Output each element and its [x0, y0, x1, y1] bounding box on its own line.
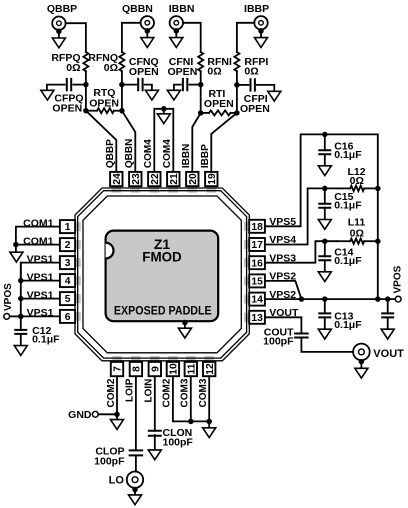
pin 23 box — [129, 172, 141, 186]
svg-text:13: 13 — [251, 313, 263, 324]
svg-text:5: 5 — [65, 294, 71, 305]
svg-text:COM3: COM3 — [198, 378, 209, 407]
svg-text:EXPOSED PADDLE: EXPOSED PADDLE — [114, 303, 212, 317]
capacitor C16 0.1uF — [324, 134, 326, 150]
node rail bottom — [375, 296, 381, 302]
pin 6 box — [60, 310, 75, 323]
svg-text:VPS3: VPS3 — [269, 252, 296, 264]
resistor RFNI 0Ω — [198, 52, 203, 71]
ground (exposed paddle) — [182, 320, 188, 326]
svg-text:VPS5: VPS5 — [269, 216, 296, 228]
wire COM1 pin 1 — [16, 227, 60, 245]
package outline middle — [78, 191, 247, 358]
pin 14 box — [249, 293, 265, 306]
capacitor CFNI OPEN — [190, 84, 201, 86]
pin 2 box — [60, 238, 75, 251]
wire IBBN to RFNI — [183, 23, 201, 52]
inductor L12 0Ω — [350, 186, 364, 191]
wire COM3 pin 12 — [208, 376, 210, 421]
capacitor C14 0.1uF — [324, 241, 326, 256]
ground (COM1) — [10, 252, 23, 262]
svg-text:9: 9 — [150, 366, 161, 372]
node RTI right — [234, 110, 240, 116]
inductor L11 0Ω — [350, 239, 364, 244]
node C15 junction — [322, 186, 328, 192]
node VPS2 join — [299, 296, 305, 302]
connector VOUT — [353, 344, 370, 361]
node CFNI junction — [198, 82, 204, 88]
svg-text:8: 8 — [132, 366, 143, 372]
svg-text:VPS1: VPS1 — [27, 289, 54, 301]
svg-text:QBBN: QBBN — [122, 3, 153, 15]
svg-text:VPS1: VPS1 — [27, 307, 54, 319]
svg-text:OPEN: OPEN — [52, 103, 82, 115]
svg-text:OPEN: OPEN — [129, 66, 159, 78]
connector IBBP — [254, 16, 267, 29]
wire to pin 23 — [122, 111, 135, 172]
wire LOIN pin 9 to CLON — [154, 376, 156, 431]
svg-text:LO: LO — [109, 475, 125, 487]
node COM1 junction — [13, 242, 19, 248]
package outline outer — [75, 188, 249, 361]
svg-text:15: 15 — [251, 277, 263, 288]
svg-text:0Ω: 0Ω — [350, 227, 364, 239]
pin 16 box — [249, 256, 265, 269]
svg-text:22: 22 — [150, 173, 161, 185]
wire VPS4 pin 17 to supply row 2 — [265, 188, 337, 244]
capacitor CLON 100pF — [148, 431, 162, 436]
resistor RTI OPEN — [201, 112, 209, 114]
svg-text:100pF: 100pF — [263, 335, 294, 347]
svg-text:GND: GND — [68, 409, 92, 421]
node RTQ left — [83, 108, 89, 114]
node CFNQ junction — [119, 82, 125, 88]
ground (QBBP connector) — [56, 29, 62, 35]
node VPS1 pin6 — [18, 314, 24, 320]
terminal VPOS right — [395, 296, 401, 302]
svg-text:0.1μF: 0.1μF — [334, 319, 362, 331]
connector QBBP — [52, 17, 65, 30]
wire VPS1 pin 4 — [21, 280, 60, 282]
capacitor C15 0.1uF — [324, 188, 326, 203]
node RTI left — [198, 110, 204, 116]
svg-text:12: 12 — [205, 363, 216, 375]
svg-text:OPEN: OPEN — [168, 66, 198, 78]
chip Z1 FMOD body — [106, 231, 219, 322]
wire COUT to VOUT connector — [301, 338, 353, 352]
wire IBBP to RFPI — [237, 23, 254, 52]
wire RFPI to RTI node — [236, 71, 238, 113]
package outline inner — [83, 196, 241, 353]
wire VPS1 pin 6 — [21, 315, 60, 317]
package pin pads — [112, 186, 121, 193]
pin 11 box — [185, 362, 197, 376]
node VPS1 pin5 — [18, 296, 24, 302]
wire VOUT pin 13 to COUT — [265, 317, 301, 333]
svg-text:0Ω: 0Ω — [207, 65, 221, 77]
svg-text:14: 14 — [251, 295, 263, 306]
terminal GND — [98, 413, 117, 415]
svg-text:24: 24 — [112, 173, 123, 185]
pin 9 box — [149, 362, 161, 376]
svg-text:IBBN: IBBN — [169, 3, 195, 15]
svg-text:VPOS: VPOS — [392, 265, 403, 293]
svg-text:0Ω: 0Ω — [244, 65, 258, 77]
svg-text:10: 10 — [169, 363, 180, 375]
capacitor COUT 100pF — [294, 334, 309, 338]
svg-text:0.1μF: 0.1μF — [334, 199, 362, 211]
pin 1 box — [60, 220, 75, 233]
connector LO — [127, 472, 143, 488]
capacitor CFPI OPEN — [237, 84, 249, 86]
node CFPQ junction — [83, 82, 89, 88]
svg-text:IBBP: IBBP — [244, 3, 269, 15]
svg-text:19: 19 — [207, 173, 218, 185]
svg-text:COM4: COM4 — [143, 139, 154, 168]
pin 3 box — [60, 256, 75, 269]
svg-text:7: 7 — [113, 366, 124, 372]
svg-text:VPS2: VPS2 — [269, 289, 296, 301]
connector IBBN — [170, 16, 183, 29]
wire COM3 pin 11 — [190, 376, 192, 421]
svg-text:20: 20 — [188, 173, 199, 185]
pin 7 box — [111, 362, 123, 376]
svg-text:FMOD: FMOD — [142, 249, 182, 265]
wire RFNQ to RTQ node — [121, 71, 123, 111]
svg-text:6: 6 — [65, 312, 71, 323]
wire VPS3 pin 16 to supply row 3 — [265, 241, 337, 263]
wire RFNI to RTI node — [200, 71, 202, 113]
pin 8 box — [130, 362, 142, 376]
terminal VPOS left — [10, 315, 21, 317]
rail wire right supply — [377, 134, 379, 299]
svg-text:COM3: COM3 — [180, 378, 191, 407]
wire COM1 pin 2 — [16, 244, 60, 246]
chip pin-1 notch — [106, 243, 114, 259]
resistor RFNQ 0Ω — [119, 52, 124, 71]
wire VPS1 pin 5 — [21, 298, 60, 300]
wire VPS1 pin 3 — [21, 263, 60, 281]
capacitor bypass at VPOS — [387, 299, 389, 313]
node C13 junction — [322, 296, 328, 302]
wire VPS1 bus — [20, 263, 22, 317]
resistor RFPI 0Ω — [234, 52, 239, 71]
ground (LO connector) — [132, 487, 138, 493]
capacitor CLOP 100pF — [129, 450, 144, 455]
ground (CFPI) — [268, 91, 281, 101]
resistor RFPQ 0Ω — [83, 52, 88, 71]
svg-text:18: 18 — [251, 222, 263, 233]
ground (C15) — [318, 220, 331, 230]
pin 13 box — [249, 311, 265, 324]
pin 22 box — [148, 172, 160, 186]
wire QBBN to RFNQ — [122, 23, 141, 52]
capacitor CFPQ OPEN — [73, 84, 86, 86]
pin 5 box — [60, 292, 75, 305]
node GND junction — [114, 412, 120, 418]
wire QBBP to RFPQ — [66, 23, 86, 52]
svg-text:QBBP: QBBP — [47, 3, 77, 15]
svg-text:17: 17 — [251, 240, 263, 251]
svg-text:1: 1 — [65, 222, 71, 233]
wire VPS2 pin 14 to VPOS — [265, 298, 395, 300]
capacitor C13 0.1uF — [324, 299, 326, 313]
ground (IBBN connector) — [174, 28, 180, 34]
svg-text:100pF: 100pF — [94, 456, 125, 468]
wire COM2 pin 7 to GND — [116, 376, 118, 414]
svg-text:QBBP: QBBP — [105, 139, 116, 168]
svg-text:COM4: COM4 — [162, 139, 173, 168]
svg-text:COM1: COM1 — [23, 217, 53, 229]
svg-text:VPOS: VPOS — [3, 283, 14, 311]
wire CLOP to LO connector — [135, 455, 137, 471]
svg-text:16: 16 — [251, 258, 263, 269]
svg-text:VPS4: VPS4 — [269, 234, 296, 246]
node VPS1 pin4 — [18, 278, 24, 284]
svg-text:COM1: COM1 — [23, 235, 53, 247]
svg-text:11: 11 — [186, 363, 197, 374]
ground (COM4) — [157, 114, 170, 124]
node COM3 pin 12 junction — [206, 419, 212, 425]
svg-text:23: 23 — [131, 173, 142, 185]
ground (QBBN connector) — [145, 28, 151, 34]
wire COM2 pin 10 — [173, 376, 209, 421]
svg-text:QBBN: QBBN — [124, 139, 135, 168]
ground (C14) — [318, 272, 331, 282]
svg-text:OPEN: OPEN — [89, 98, 119, 110]
wire to pin 20 — [192, 113, 200, 172]
svg-text:VOUT: VOUT — [269, 307, 299, 319]
svg-text:IBBN: IBBN — [181, 144, 192, 168]
pin 18 box — [249, 220, 265, 233]
ground (CFNQ) — [145, 90, 158, 100]
node rail row 2 — [375, 186, 381, 192]
node rail row 3 — [375, 238, 381, 244]
svg-text:0Ω: 0Ω — [104, 62, 118, 74]
wire VPS2 pin 15 — [265, 281, 301, 299]
pin 20 box — [186, 172, 198, 186]
svg-text:VPS1: VPS1 — [27, 253, 54, 265]
svg-text:IBBP: IBBP — [200, 144, 211, 168]
node bypass cap junction — [385, 296, 391, 302]
svg-text:2: 2 — [65, 240, 71, 251]
ground (C16) — [318, 166, 331, 176]
svg-text:COM2: COM2 — [106, 378, 117, 407]
svg-text:COM2: COM2 — [162, 378, 173, 407]
capacitor C12 0.1uF — [20, 316, 22, 330]
wire RFPQ to RTQ node — [85, 71, 87, 111]
connector QBBN — [141, 16, 154, 29]
pin 19 box — [205, 172, 217, 186]
pin 10 box — [167, 362, 179, 376]
svg-text:3: 3 — [65, 258, 71, 269]
node RTQ right — [119, 108, 125, 114]
ground (COM3) — [203, 428, 216, 438]
pin 15 box — [249, 274, 265, 287]
wire to pin 19 — [211, 113, 237, 172]
pin 24 box — [110, 172, 122, 186]
ground (C12) — [14, 346, 27, 356]
svg-text:0Ω: 0Ω — [350, 175, 364, 187]
svg-text:100pF: 100pF — [163, 437, 194, 449]
svg-text:LOIN: LOIN — [144, 379, 155, 403]
svg-text:OPEN: OPEN — [240, 103, 270, 115]
svg-text:OPEN: OPEN — [204, 98, 234, 110]
wire COM4 pins 22,21 to ground — [154, 109, 173, 172]
svg-text:4: 4 — [65, 276, 71, 287]
node C14 junction — [322, 238, 328, 244]
ground (bypass cap) — [381, 329, 394, 339]
svg-text:VPS1: VPS1 — [27, 271, 54, 283]
wire VPS5 pin 18 to supply row 1 — [265, 134, 378, 226]
resistor RTQ OPEN — [86, 110, 97, 112]
svg-text:VOUT: VOUT — [373, 348, 404, 360]
ground (IBBP connector) — [258, 28, 264, 34]
node COM3 pin 11 junction — [188, 419, 194, 425]
ground (CFPQ) — [41, 90, 54, 100]
capacitor CFNQ OPEN — [122, 84, 136, 86]
pin 12 box — [203, 362, 215, 376]
wire to pin 24 — [86, 111, 116, 172]
node COM4 ground junction — [161, 106, 167, 112]
pin 21 box — [167, 172, 179, 186]
ground (CLON) — [148, 450, 161, 460]
svg-text:VPS2: VPS2 — [269, 271, 296, 283]
ground (C13) — [318, 329, 331, 339]
ground (CFNI) — [167, 90, 180, 100]
wire LOIP pin 8 to CLOP — [135, 376, 137, 450]
svg-text:LOIP: LOIP — [125, 378, 136, 402]
ground (COM2 pin 7) — [111, 420, 124, 430]
ground (VOUT connector) — [359, 359, 365, 365]
svg-text:0.1μF: 0.1μF — [334, 255, 362, 267]
node C16 junction — [322, 132, 328, 138]
pin 4 box — [60, 274, 75, 287]
svg-text:0.1μF: 0.1μF — [32, 334, 60, 346]
svg-text:0Ω: 0Ω — [66, 62, 80, 74]
pin 17 box — [249, 238, 265, 251]
svg-text:21: 21 — [169, 173, 180, 185]
svg-text:0.1μF: 0.1μF — [334, 149, 362, 161]
node CFPI junction — [234, 82, 240, 88]
